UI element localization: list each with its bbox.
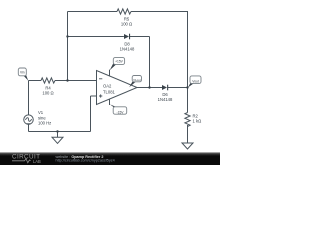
wire op-amp output to D6 xyxy=(137,87,162,89)
wire right rail vertical xyxy=(187,12,189,88)
svg-text:Vout: Vout xyxy=(192,79,199,83)
net flag +15V xyxy=(110,58,125,71)
svg-text:1 kΩ: 1 kΩ xyxy=(193,118,202,123)
svg-text:R2: R2 xyxy=(193,114,199,119)
svg-text:V1out: V1out xyxy=(133,78,141,82)
net flag V1out xyxy=(129,76,141,88)
op-amp OA2 TL081 xyxy=(97,70,138,105)
svg-text:-15V: -15V xyxy=(117,110,125,114)
wire non-inverting stub xyxy=(91,95,97,97)
svg-text:D8: D8 xyxy=(124,42,130,47)
footer CircuitLab logo xyxy=(12,153,41,164)
wire bottom return xyxy=(29,131,91,133)
svg-text:Vin: Vin xyxy=(20,70,25,74)
net flag Vout xyxy=(188,76,201,87)
resistor R4 100 Ohm xyxy=(41,78,55,95)
wire top feedback horizontal left segment xyxy=(68,11,118,13)
svg-text:R5: R5 xyxy=(124,17,130,22)
junction ground tap xyxy=(56,130,58,132)
svg-text:http://circuitlab.com/c/nyp2as: http://circuitlab.com/c/nyp2assf5yz4 xyxy=(56,158,115,162)
wire top feedback horizontal right segment xyxy=(131,11,188,13)
ground left xyxy=(52,137,63,143)
diode D8 1N4148 xyxy=(120,34,135,52)
voltage source V1 sine 100 Hz xyxy=(24,110,52,126)
svg-text:100 Hz: 100 Hz xyxy=(38,121,51,126)
wire D8 branch right segment xyxy=(130,36,150,38)
footer bar xyxy=(0,152,220,165)
svg-text:V1: V1 xyxy=(38,110,44,115)
wire left ground stem xyxy=(57,132,59,138)
wire output node down to R2 xyxy=(187,88,189,113)
wire D6 to output node xyxy=(168,87,188,89)
resistor R2 1 kOhm xyxy=(185,113,201,127)
svg-text:sine: sine xyxy=(38,115,46,120)
wire feedback vertical to inverting node xyxy=(67,12,69,81)
svg-text:D6: D6 xyxy=(162,92,168,97)
wire D8 branch left segment xyxy=(68,36,124,38)
net flag -15V xyxy=(110,104,127,114)
ground right xyxy=(182,143,193,149)
footer schematic title text xyxy=(56,155,115,163)
resistor R5 100 Ohm xyxy=(117,9,132,27)
junction output node xyxy=(186,86,188,88)
svg-text:OA2: OA2 xyxy=(103,83,112,88)
svg-text:1N4148: 1N4148 xyxy=(120,46,135,51)
diode D6 1N4148 xyxy=(158,85,173,102)
wire non-inverting vertical xyxy=(90,96,92,132)
junction D8 tap xyxy=(66,35,68,37)
wire V1 top lead xyxy=(28,81,30,115)
wire input left of R4 xyxy=(29,80,42,82)
wire R2 to ground xyxy=(187,125,189,143)
svg-text:1N4148: 1N4148 xyxy=(158,97,173,102)
junction op-amp output / D8 return xyxy=(148,86,150,88)
svg-text:TL081: TL081 xyxy=(103,89,116,94)
junction node A inverting input xyxy=(66,79,68,81)
svg-text:+15V: +15V xyxy=(115,59,124,63)
wire V1 bottom lead xyxy=(28,124,30,131)
svg-text:100 Ω: 100 Ω xyxy=(121,22,132,27)
svg-text:100 Ω: 100 Ω xyxy=(42,90,53,95)
net flag Vin xyxy=(18,68,28,81)
wire input right of R4 to op-amp xyxy=(55,80,97,82)
svg-text:R4: R4 xyxy=(45,86,51,91)
wire D8 branch vertical drop xyxy=(149,37,151,88)
svg-text:LAB: LAB xyxy=(33,159,41,164)
